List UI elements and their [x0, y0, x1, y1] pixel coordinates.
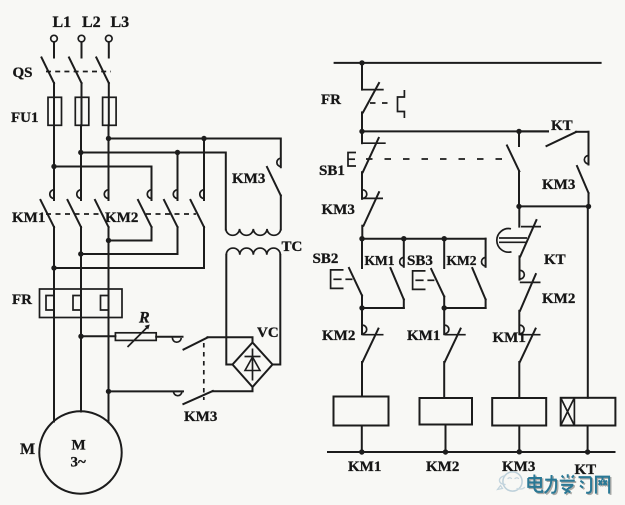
svg-text:KM1: KM1: [12, 210, 45, 226]
wire control rail 2: [362, 130, 548, 132]
svg-text:KM3: KM3: [322, 202, 355, 218]
svg-text:SB1: SB1: [319, 163, 345, 179]
terminal L3: [106, 35, 113, 42]
wire col2 pair bottom bar: [444, 307, 486, 309]
relay FR NC contact: [362, 63, 384, 131]
wire U vertical KM1 to FR: [53, 227, 55, 289]
node W brake tap: [106, 389, 111, 394]
coil KM1: [334, 397, 389, 426]
button SB1 NC contact: [362, 131, 386, 172]
node rail2 right junction: [516, 129, 521, 134]
svg-text:R: R: [138, 310, 150, 327]
node KM3 coil rail junction: [517, 449, 522, 454]
relay FR heater 3: [101, 289, 109, 318]
relay FR actuator symbol: [398, 90, 405, 118]
contactor KM3 NC contact: [362, 172, 383, 239]
contactor KM1 pole 3: [95, 190, 109, 227]
node self-hold right: [586, 204, 591, 209]
wire KT column: [587, 206, 589, 397]
contactor KM2 NC contact (col1): [362, 308, 384, 397]
wire W to motor: [108, 318, 110, 423]
switch QS pole 1 blade: [42, 58, 55, 84]
contact KM3 NO (self hold): [577, 132, 589, 207]
wire phase U vertical (fuse to KM1 pole 1): [53, 125, 55, 200]
node crossover W junction: [106, 238, 111, 243]
relay FR box: [40, 289, 123, 318]
svg-text:KM2: KM2: [542, 291, 575, 307]
node col1 pair bottom junction: [359, 305, 364, 310]
linkage KM1 dashed: [46, 213, 100, 215]
node L3-KM2 junction: [106, 136, 111, 141]
wire L2 distribution to TC primary: [81, 153, 226, 230]
wire KM2 pole3 crossover to U: [54, 227, 204, 268]
svg-text:KM1: KM1: [407, 328, 440, 344]
button SB3 NO contact: [431, 239, 444, 308]
wire W tap to KM3 lower contact: [109, 390, 184, 392]
fuse FU1-3: [103, 97, 117, 125]
svg-text:KM1: KM1: [493, 330, 526, 346]
watermark logo circle: [498, 472, 525, 491]
svg-text:QS: QS: [13, 65, 33, 81]
contactor KM2 pole 3: [191, 190, 205, 227]
node bar col2: [442, 236, 447, 241]
node KM2 pole3 feed junction: [201, 136, 206, 141]
svg-text:TC: TC: [282, 239, 303, 255]
wire L1 drop: [53, 42, 55, 58]
button SB2 NO contact: [349, 239, 362, 308]
wire KM3 lower to rectifier bottom: [213, 387, 253, 391]
contact KM2 aux NO: [472, 239, 486, 308]
node bar mid (KM1 aux): [401, 236, 406, 241]
svg-text:VC: VC: [257, 325, 279, 341]
wire control bottom rail: [328, 451, 615, 453]
contactor KM1 pole 2: [68, 190, 82, 227]
contact KT NO (self hold): [519, 131, 589, 146]
rectifier VC bridge diamond: [233, 343, 273, 388]
wire V vertical KM1 to FR: [80, 227, 82, 289]
svg-text:KM3: KM3: [542, 177, 575, 193]
resistor R adjust arrow: [128, 325, 150, 348]
svg-text:L1: L1: [53, 14, 72, 31]
wire L1 to fuse: [53, 83, 55, 125]
wire phase V vertical (fuse to KM1 pole 2): [80, 125, 82, 200]
node L1 junction: [51, 164, 56, 169]
node KT coil rail junction: [585, 449, 590, 454]
contactor KM2 pole 1: [138, 190, 152, 227]
rectifier VC diode: [245, 349, 261, 381]
wire KM3 power to TC primary: [280, 196, 282, 230]
resistor R: [115, 333, 156, 341]
svg-text:KT: KT: [544, 252, 566, 268]
button SB1 cap symbol: [348, 153, 356, 167]
wire control top rail: [335, 62, 601, 64]
svg-text:L3: L3: [111, 14, 130, 31]
switch QS linkage dashed: [46, 71, 111, 73]
contact KT delayed NC: [497, 206, 541, 256]
wire col1 pair bottom bar: [362, 307, 404, 309]
wire L3 distribution to KM3 branch: [109, 139, 281, 168]
svg-text:L2: L2: [82, 14, 101, 31]
node rail2 left junction: [359, 129, 364, 134]
svg-text:KM2: KM2: [105, 210, 138, 226]
wire L2 drop: [81, 42, 83, 58]
svg-text:SB2: SB2: [313, 251, 339, 267]
svg-text:KM3: KM3: [232, 171, 265, 187]
svg-text:3~: 3~: [71, 455, 87, 471]
svg-text:KM3: KM3: [502, 459, 535, 475]
wire V to motor: [80, 318, 82, 412]
button SB3 cap symbol: [413, 271, 435, 290]
relay FR heater 1: [46, 289, 54, 318]
button SB2 cap symbol: [331, 270, 353, 289]
wire KM2 pole3 feed drop: [203, 139, 205, 201]
coil KT: [561, 398, 616, 426]
linkage SB1 dashed to KM3 start contact: [366, 158, 508, 160]
contactor KM1 NC contact (col3): [519, 325, 540, 398]
fuse FU1-1: [48, 97, 62, 125]
linkage FR dashed: [370, 102, 394, 104]
svg-text:KM1: KM1: [365, 253, 395, 268]
wire L3 drop: [108, 42, 110, 58]
svg-text:M: M: [20, 441, 35, 458]
wire parallel-branch top bar: [362, 238, 486, 240]
wire KM2 pole2 crossover to V: [81, 227, 178, 254]
node top rail junction: [359, 60, 364, 65]
contact KM1 aux NO: [391, 239, 405, 308]
node KM2 coil rail junction: [443, 449, 448, 454]
node KM2 pole2 feed junction: [175, 150, 180, 155]
node crossover U junction: [51, 265, 56, 270]
relay FR heater 2: [73, 289, 81, 318]
wire L2 to fuse: [81, 83, 83, 125]
wire TC secondary right to bridge: [273, 255, 281, 365]
svg-text:M: M: [72, 438, 86, 454]
contact KM3 power: [267, 158, 281, 195]
contact KM3 brake upper: [172, 338, 207, 350]
svg-text:KT: KT: [551, 118, 573, 134]
wire W vertical KM1 to FR: [108, 227, 110, 289]
watermark text 电力学习网: [528, 474, 609, 493]
wire L1 distribution to KM2 pole1: [54, 167, 152, 201]
contact KM3 brake lower: [173, 391, 212, 404]
linkage KM3 brake dashed: [203, 343, 205, 400]
node L2 junction: [78, 150, 83, 155]
svg-text:KM2: KM2: [447, 253, 477, 268]
terminal L2: [78, 35, 85, 42]
fuse FU1-2: [75, 97, 89, 125]
contactor KM1 pole 1: [41, 190, 55, 227]
node crossover V junction: [78, 251, 83, 256]
wire KM2 coil to rail: [445, 425, 447, 453]
wire TC secondary left to bridge: [226, 255, 232, 365]
svg-text:FR: FR: [321, 92, 341, 108]
wire KT coil to rail: [587, 426, 589, 453]
switch QS pole 2 blade: [69, 58, 82, 84]
contactor KM2 NC contact (col3): [519, 256, 540, 334]
coil KM3: [492, 398, 546, 426]
svg-text:FU1: FU1: [11, 110, 39, 126]
wire U to motor: [53, 318, 55, 422]
wire V tap to resistor R: [81, 335, 115, 337]
wire phase W vertical (fuse to KM1 pole 3): [108, 125, 110, 200]
wire self-hold bottom bar: [519, 205, 589, 207]
node self-hold left: [516, 204, 521, 209]
transformer TC primary winding: [226, 229, 281, 235]
wire KM3 upper to rectifier top: [208, 337, 253, 342]
linkage KM2 dashed: [146, 213, 196, 215]
contactor KM1 NC contact (col2): [444, 308, 466, 398]
svg-text:KM3: KM3: [184, 409, 217, 425]
node V brake tap: [78, 334, 83, 339]
svg-text:FR: FR: [12, 292, 32, 308]
wire KM3 coil to rail: [518, 426, 520, 452]
wire KM2 pole1 crossover to W: [109, 227, 152, 241]
motor M circle: [39, 411, 121, 493]
svg-text:KM2: KM2: [322, 328, 355, 344]
terminal L1: [51, 35, 58, 42]
node col2 pair bottom junction: [442, 305, 447, 310]
wire KM1 coil to rail: [361, 426, 363, 453]
switch QS pole 3 blade: [96, 58, 109, 84]
svg-text:KT: KT: [575, 462, 597, 478]
wire L3 to fuse: [108, 83, 110, 125]
wire KM2 pole2 feed drop: [177, 153, 179, 201]
svg-text:KM2: KM2: [426, 459, 459, 475]
svg-text:KM1: KM1: [348, 459, 381, 475]
svg-text:SB3: SB3: [407, 253, 433, 269]
contact SB1 NO (brake start): [507, 131, 519, 206]
node bar left: [359, 236, 364, 241]
node KM1 coil rail junction: [359, 449, 364, 454]
transformer TC secondary winding: [226, 248, 280, 255]
watermark text shadow: [530, 476, 611, 495]
wire R to KM3 brake contact: [156, 336, 182, 338]
contactor KM2 pole 2: [164, 190, 178, 227]
coil KM2: [420, 398, 473, 425]
